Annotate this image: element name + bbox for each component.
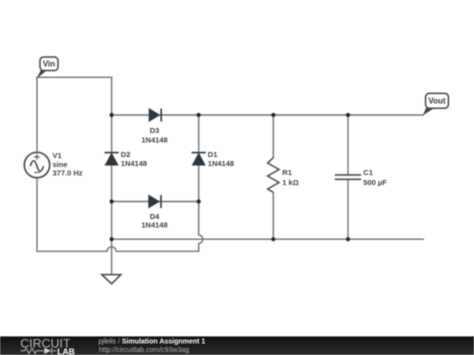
svg-text:D2: D2: [121, 150, 131, 159]
svg-text:D1: D1: [208, 150, 218, 159]
svg-text:R1: R1: [282, 168, 292, 177]
svg-text:500 µF: 500 µF: [363, 178, 387, 187]
svg-text:1N4148: 1N4148: [141, 220, 167, 229]
svg-text:sine: sine: [53, 160, 68, 169]
svg-text:D3: D3: [150, 126, 160, 135]
svg-text:pjlelis / Simulation Assignmen: pjlelis / Simulation Assignment 1: [98, 338, 206, 345]
svg-text:1 kΩ: 1 kΩ: [282, 178, 298, 187]
svg-text:1N4148: 1N4148: [208, 159, 234, 168]
svg-text:Vout: Vout: [428, 97, 446, 106]
svg-text:Vin: Vin: [43, 60, 55, 69]
svg-text:377.0 Hz: 377.0 Hz: [53, 169, 83, 178]
svg-text:C1: C1: [363, 168, 373, 177]
svg-text:LAB: LAB: [57, 346, 74, 355]
svg-text:V1: V1: [53, 151, 62, 160]
svg-text:1N4148: 1N4148: [121, 159, 147, 168]
svg-text:1N4148: 1N4148: [141, 135, 167, 144]
svg-text:http://circuitlab.com/c93w3ag: http://circuitlab.com/c93w3ag: [99, 347, 189, 354]
